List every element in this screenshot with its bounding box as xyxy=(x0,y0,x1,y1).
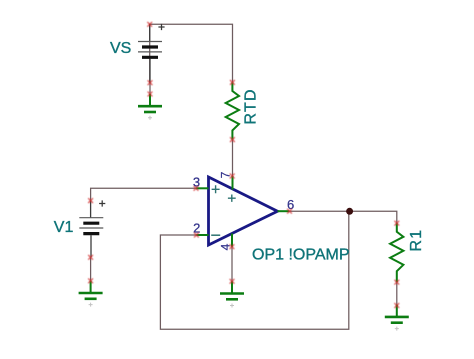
pin x gnd4 xyxy=(394,303,399,308)
ground under R1 xyxy=(385,305,409,323)
pin x OP1.7 xyxy=(230,174,235,179)
pin x VS.1 xyxy=(147,22,152,27)
wire net: V1+ to op-amp pin 3 xyxy=(91,188,196,200)
pin x RTD.1 xyxy=(230,80,235,85)
ground under VS xyxy=(138,94,162,112)
pin 6 stub xyxy=(278,210,290,212)
pin x gnd3 xyxy=(230,279,235,284)
op-amp OP1 xyxy=(196,176,289,247)
resistor R1 xyxy=(390,223,403,282)
wire: op-amp pin 4 to ground xyxy=(231,247,233,282)
inverting - mark xyxy=(211,234,220,236)
svg-text:RTD: RTD xyxy=(243,88,260,124)
pin 7 stub xyxy=(232,176,234,190)
pin 2 stub xyxy=(196,234,208,236)
pin x R1.2 xyxy=(394,280,399,285)
pin x OP1.3 xyxy=(194,186,199,191)
ground under op-amp pin 4 xyxy=(220,281,244,299)
wire: R1 bottom to ground xyxy=(396,282,398,305)
pin x OP1.4 xyxy=(230,244,235,249)
ground ref mark under R1 xyxy=(395,327,399,331)
polarity + of V1 xyxy=(99,200,105,206)
ground ref mark under V1 xyxy=(89,303,93,307)
pin x V1.2 xyxy=(88,255,93,260)
pin 4 stub xyxy=(231,234,233,247)
battery VS xyxy=(138,24,162,82)
pin x RTD.2 xyxy=(230,137,235,142)
battery V1 xyxy=(79,201,103,258)
wire: VS- to ground xyxy=(149,83,151,94)
pin x gnd1 xyxy=(148,92,153,97)
svg-text:VS: VS xyxy=(110,40,131,57)
ground under V1 xyxy=(79,281,103,299)
wire net: op-amp pin 2 feedback loop to output xyxy=(160,211,348,329)
wire net: op-amp pin 6 output to R1 top xyxy=(289,211,397,223)
positive supply + mark xyxy=(228,195,236,202)
resistor RTD xyxy=(226,82,239,139)
ground ref mark under VS xyxy=(148,116,152,120)
svg-text:OP1 !OPAMP: OP1 !OPAMP xyxy=(252,246,350,263)
pin x gnd2 xyxy=(88,278,93,283)
svg-text:V1: V1 xyxy=(54,219,74,236)
pin x OP1.6 xyxy=(287,209,292,214)
pin x OP1.2 xyxy=(194,233,199,238)
noninverting + mark xyxy=(212,185,220,193)
svg-text:R1: R1 xyxy=(408,229,425,252)
wire net: VS+ to RTD top xyxy=(150,24,233,82)
pin x V1.1 xyxy=(88,198,93,203)
polarity + of VS xyxy=(158,24,164,30)
junction: output node xyxy=(346,208,353,215)
pin 3 stub xyxy=(196,187,209,189)
wire: V1- to ground xyxy=(90,257,92,281)
pin x R1.1 xyxy=(394,221,399,226)
ground ref mark under op-amp xyxy=(230,304,234,308)
wire: RTD bottom to op-amp pin 7 xyxy=(232,140,234,176)
pin x VS.2 xyxy=(148,80,153,85)
